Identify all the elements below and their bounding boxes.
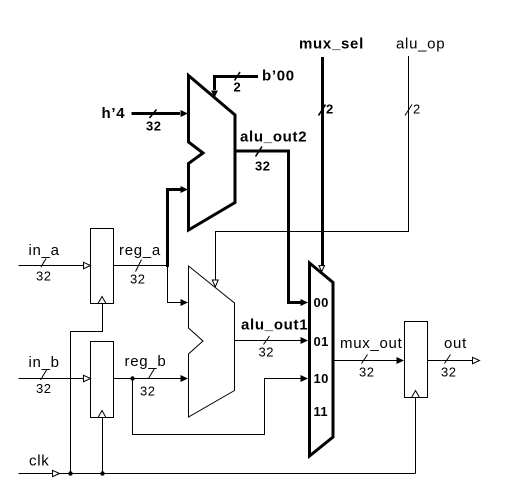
clock wedge reg_b [98, 411, 106, 418]
open arrowhead in_b [84, 375, 91, 381]
svg-text:mux_out: mux_out [340, 335, 403, 352]
bus slash in_b [41, 370, 47, 380]
junction clk riser B [100, 471, 104, 475]
alu U1 (middle ALU, thin) [189, 266, 235, 417]
wire reg_b to alu U1 input b [114, 378, 182, 380]
svg-text:clk: clk [29, 453, 49, 470]
wire in_a [19, 265, 85, 267]
wire reg_a down to alu U1 input a [168, 266, 182, 303]
wire h'4 (bold) [132, 112, 181, 115]
clock wedge reg_a [98, 297, 106, 304]
wire reg_b detour to mux input 10 [133, 379, 302, 435]
clock wedge out register [412, 391, 420, 398]
bus slash alu_op [405, 105, 412, 116]
filled arrowhead into alu U1 input b [181, 375, 189, 382]
wire reg_a up to alu U2 input b (bold) [168, 190, 182, 268]
svg-text:32: 32 [36, 381, 51, 396]
svg-text:00: 00 [314, 295, 329, 310]
bus slash b'00 [235, 72, 241, 81]
open arrowhead mux_sel into mux top edge [319, 266, 325, 272]
svg-text:h’4: h’4 [102, 105, 126, 122]
register out [405, 322, 428, 398]
bus slash reg_a [136, 260, 142, 272]
wire alu_op [216, 56, 409, 280]
open arrowhead in_a [84, 262, 91, 268]
filled arrowhead alu_out2 into mux input 00 [301, 299, 309, 306]
wire clk to reg_a clock [71, 304, 103, 474]
wire b'00 (bold) [215, 77, 259, 91]
bus slash reg_b [149, 369, 155, 379]
wire alu_out1 to mux input 01 [235, 340, 302, 342]
svg-text:01: 01 [314, 334, 329, 349]
register reg_b [91, 342, 114, 418]
svg-text:alu_op: alu_op [396, 36, 445, 53]
filled arrowhead b'00 into alu U2 top edge [211, 91, 218, 98]
filled arrowhead alu_out1 into mux input 01 [301, 337, 309, 344]
svg-text:32: 32 [255, 159, 270, 174]
svg-text:2: 2 [326, 102, 334, 117]
junction clk riser A [68, 471, 72, 475]
bus slash mux_sel [319, 105, 326, 116]
open arrowhead alu_op into alu U1 top edge [212, 280, 218, 287]
svg-text:b’00: b’00 [262, 68, 295, 85]
filled arrowhead into mux input 10 [301, 375, 309, 382]
register reg_a [91, 229, 114, 304]
wire mux_out [333, 360, 397, 362]
svg-text:32: 32 [140, 384, 155, 399]
bus slash mux_out [362, 355, 368, 364]
filled arrowhead mux_out into out register [397, 357, 405, 364]
wire out [428, 360, 474, 362]
wire clk [19, 473, 416, 475]
bus slash in_a [41, 259, 46, 268]
svg-text:32: 32 [146, 119, 161, 134]
svg-text:32: 32 [36, 269, 51, 284]
filled arrowhead into alu U1 input a [181, 299, 189, 306]
svg-text:reg_a: reg_a [119, 242, 161, 259]
svg-text:2: 2 [413, 102, 421, 117]
svg-text:mux_sel: mux_sel [299, 36, 364, 53]
svg-text:in_b: in_b [29, 354, 60, 371]
svg-text:32: 32 [259, 345, 274, 360]
wire alu_out2 (bold) [235, 151, 301, 303]
wire reg_a to junction [114, 265, 168, 267]
svg-text:32: 32 [441, 365, 456, 380]
filled arrowhead into alu U2 input b [181, 186, 189, 193]
open arrowhead out [473, 357, 480, 363]
bus slash h'4 [150, 110, 157, 119]
alu U2 (top ALU, bold) [189, 76, 236, 231]
svg-text:reg_b: reg_b [125, 353, 167, 370]
open arrowhead clk [53, 470, 60, 476]
svg-text:in_a: in_a [29, 242, 60, 259]
wire clk to out register clock [415, 398, 417, 474]
bus slash alu_out2 [256, 147, 263, 157]
svg-text:out: out [444, 335, 467, 352]
svg-text:2: 2 [234, 80, 242, 95]
svg-text:alu_out1: alu_out1 [241, 317, 308, 334]
svg-text:32: 32 [359, 365, 374, 380]
svg-text:11: 11 [314, 404, 329, 419]
mux U3 (4-input mux, bold) [310, 263, 334, 456]
wire in_b [19, 378, 85, 380]
svg-text:alu_out2: alu_out2 [240, 129, 307, 146]
bus slash alu_out1 [264, 336, 270, 345]
svg-text:32: 32 [130, 272, 145, 287]
filled arrowhead h'4 into alu U2 [181, 110, 189, 117]
wire mux_sel (bold) [321, 57, 324, 266]
junction reg_b node [130, 376, 134, 380]
wire clk to reg_b clock [102, 418, 104, 474]
bus slash out [445, 355, 451, 364]
svg-text:10: 10 [314, 371, 329, 386]
